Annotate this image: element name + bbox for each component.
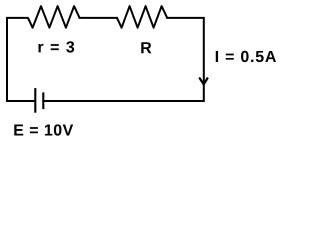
label r = 3 [38, 41, 74, 52]
wire between resistors [79, 17, 118, 19]
resistor R zigzag [117, 6, 167, 28]
wire left loop (top-left corner, left side, bottom-left run to battery) [7, 18, 34, 101]
wire right loop (top-right run, right side, bottom run to battery) [42, 18, 204, 101]
label R [141, 42, 151, 53]
battery short plate (negative) [42, 92, 44, 109]
current arrowhead on right wire [199, 78, 208, 85]
label E = 10V [14, 124, 73, 135]
battery long plate (positive) [34, 88, 36, 113]
label I = 0.5A [216, 51, 276, 62]
resistor r1 zigzag [28, 6, 80, 28]
